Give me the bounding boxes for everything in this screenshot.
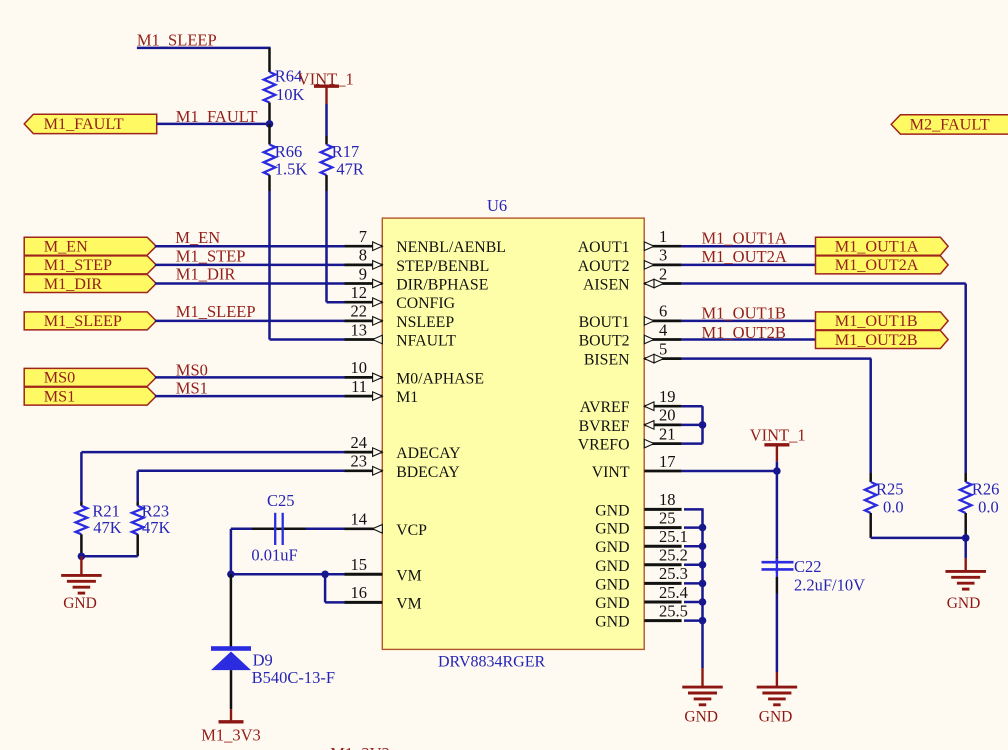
svg-text:20: 20 bbox=[659, 406, 676, 425]
svg-text:M1_SLEEP: M1_SLEEP bbox=[44, 312, 122, 330]
wire M1_SLEEP horizontal bbox=[137, 47, 271, 50]
svg-text:18: 18 bbox=[659, 490, 676, 509]
wire VM to pin 15 bbox=[325, 573, 344, 576]
wire C25 left to VM node bbox=[231, 528, 252, 531]
svg-text:MS1: MS1 bbox=[44, 387, 75, 405]
svg-text:R25: R25 bbox=[876, 480, 904, 499]
wire ADECAY down bbox=[80, 452, 83, 502]
node junction R21/R23 gnd bbox=[78, 553, 86, 561]
ground GND (right) bbox=[965, 558, 967, 571]
svg-text:6: 6 bbox=[659, 302, 667, 321]
wire BOUT1 to flag bbox=[682, 320, 816, 323]
ground GND (left) bbox=[80, 556, 82, 575]
svg-text:0.01uF: 0.01uF bbox=[251, 546, 297, 565]
wire AOUT2 to flag bbox=[682, 264, 816, 267]
svg-text:VCP: VCP bbox=[396, 522, 427, 539]
svg-text:BDECAY: BDECAY bbox=[396, 464, 460, 481]
wire VCP right of C25 bbox=[306, 528, 345, 531]
pin 4 (BOUT2) of U6 bbox=[644, 338, 681, 341]
svg-text:15: 15 bbox=[351, 555, 368, 574]
svg-text:25.5: 25.5 bbox=[659, 601, 688, 620]
wire R25 to R26 bottom bbox=[871, 537, 966, 540]
svg-text:M0/APHASE: M0/APHASE bbox=[396, 370, 484, 387]
wire gnd pin row 4 bbox=[684, 582, 704, 585]
R26 top lead bbox=[964, 473, 967, 482]
wire ADECAY pin 24 bbox=[81, 451, 344, 454]
pin 16 (VM) of U6 bbox=[345, 601, 383, 604]
svg-text:STEP/BENBL: STEP/BENBL bbox=[396, 258, 489, 275]
svg-text:0.0: 0.0 bbox=[978, 497, 999, 516]
svg-text:C22: C22 bbox=[794, 557, 822, 576]
R66 top lead bbox=[268, 124, 271, 145]
svg-text:M1_OUT1B: M1_OUT1B bbox=[835, 312, 918, 330]
svg-text:M1_3V3: M1_3V3 bbox=[201, 726, 261, 745]
wire VM to pin 16 bbox=[325, 601, 344, 604]
wire BISEN horizontal bbox=[682, 357, 872, 360]
svg-text:M1_DIR: M1_DIR bbox=[44, 275, 103, 293]
power symbol VINT_1 (top) bbox=[314, 84, 339, 87]
IC U6 body (DRV8834 driver) bbox=[382, 218, 644, 649]
wire VINT_1 to R17 bbox=[325, 104, 328, 136]
svg-text:M1_OUT1A: M1_OUT1A bbox=[702, 228, 787, 247]
svg-text:DRV8834RGER: DRV8834RGER bbox=[438, 654, 546, 671]
pin 25.4 (GND) of U6 bbox=[644, 601, 681, 604]
flag M1_SLEEP bbox=[24, 312, 156, 330]
node junction gnd bus 1 bbox=[699, 524, 707, 532]
node junction gnd bus 4 bbox=[699, 580, 707, 588]
node junction VINT/C22 bbox=[773, 467, 781, 475]
wire VM node horizontal bbox=[231, 573, 325, 576]
pin 20 (BVREF) of U6 bbox=[644, 424, 681, 427]
svg-text:M1_DIR: M1_DIR bbox=[176, 264, 236, 283]
svg-text:MS0: MS0 bbox=[44, 369, 75, 387]
pin 8 (STEP/BENBL) of U6 bbox=[345, 264, 383, 267]
C22 bottom lead bbox=[776, 577, 779, 594]
svg-text:16: 16 bbox=[351, 583, 368, 602]
wire BDECAY down bbox=[136, 471, 139, 502]
svg-text:47K: 47K bbox=[142, 518, 171, 537]
wire AVREF elbow bbox=[682, 405, 703, 408]
wire gnd pin row 6 bbox=[684, 619, 704, 622]
R25 top lead bbox=[869, 473, 872, 482]
node junction gnd bus 2 bbox=[699, 542, 707, 550]
resistor R64 bbox=[264, 72, 276, 103]
node junction gnd bus 5 bbox=[699, 598, 707, 606]
svg-text:NFAULT: NFAULT bbox=[396, 333, 456, 350]
svg-text:GND: GND bbox=[595, 558, 629, 575]
wire BVREF elbow bbox=[682, 424, 703, 427]
svg-text:25.4: 25.4 bbox=[659, 583, 688, 602]
wire M1_FAULT to junction bbox=[157, 123, 270, 126]
wire into node bbox=[268, 120, 271, 124]
svg-text:GND: GND bbox=[947, 595, 981, 612]
svg-text:R66: R66 bbox=[275, 142, 303, 161]
svg-text:GND: GND bbox=[595, 539, 629, 556]
svg-text:21: 21 bbox=[659, 424, 676, 443]
flag M_EN bbox=[24, 237, 156, 255]
pin 1 (AOUT1) of U6 bbox=[644, 245, 681, 248]
capacitor C22 bbox=[762, 561, 794, 564]
wire gnd pin row 0 bbox=[684, 508, 704, 511]
svg-text:17: 17 bbox=[659, 452, 676, 471]
pin 13 (NFAULT) of U6 bbox=[345, 338, 383, 341]
node junction BVREF tie bbox=[699, 421, 707, 429]
svg-text:BISEN: BISEN bbox=[584, 352, 630, 369]
svg-text:14: 14 bbox=[351, 510, 368, 529]
svg-text:BVREF: BVREF bbox=[579, 418, 630, 435]
wire M_EN to pin 7 bbox=[155, 245, 345, 248]
C25 right lead bbox=[283, 528, 306, 531]
svg-text:NSLEEP: NSLEEP bbox=[396, 314, 454, 331]
svg-text:GND: GND bbox=[595, 614, 629, 631]
C25 through lead bbox=[275, 528, 283, 531]
wire gnd bus vertical bbox=[701, 509, 704, 668]
svg-text:AOUT1: AOUT1 bbox=[578, 239, 630, 256]
wire gnd pin row 3 bbox=[684, 564, 704, 567]
wire MS0 to pin 10 bbox=[155, 376, 345, 379]
svg-text:C25: C25 bbox=[267, 491, 295, 510]
wire M1_DIR to pin 9 bbox=[155, 282, 345, 285]
R17 bottom lead bbox=[325, 175, 328, 191]
svg-text:M1_STEP: M1_STEP bbox=[176, 247, 246, 266]
svg-text:22: 22 bbox=[351, 302, 368, 321]
svg-text:47K: 47K bbox=[93, 518, 122, 537]
svg-text:BOUT1: BOUT1 bbox=[579, 314, 630, 331]
pin 19 (AVREF) of U6 bbox=[644, 405, 681, 408]
svg-text:10: 10 bbox=[351, 358, 368, 377]
wire BISEN down to R25 bbox=[869, 359, 872, 473]
resistor R23 bbox=[132, 506, 144, 535]
R21 bottom lead bbox=[80, 534, 83, 553]
svg-text:M1_OUT1B: M1_OUT1B bbox=[702, 304, 786, 323]
node junction R26/gnd bbox=[962, 534, 970, 542]
wire gnd pin row 5 bbox=[684, 601, 704, 604]
wire VREFO elbow bbox=[682, 442, 703, 445]
wire BDECAY pin 23 bbox=[138, 470, 345, 473]
diode D9 (B540C-13-F) bbox=[211, 646, 251, 651]
svg-text:M_EN: M_EN bbox=[175, 228, 220, 247]
wire elbow to pin 13 bbox=[270, 338, 345, 341]
resistor R26 bbox=[960, 482, 972, 513]
wire VINT_1 stem to node bbox=[776, 462, 779, 471]
flag M1_DIR bbox=[24, 275, 156, 293]
svg-text:CONFIG: CONFIG bbox=[396, 295, 455, 312]
svg-text:R17: R17 bbox=[332, 142, 360, 161]
svg-text:5: 5 bbox=[659, 339, 667, 358]
flag M2_FAULT (left-pointing) bbox=[891, 115, 1008, 134]
svg-text:M1_OUT2B: M1_OUT2B bbox=[702, 323, 786, 342]
pin 18 (GND) of U6 bbox=[644, 508, 681, 511]
pin 12 (CONFIG) of U6 bbox=[345, 301, 383, 304]
node junction M1_FAULT/R64/R66 bbox=[266, 120, 274, 128]
capacitor C25 bbox=[274, 513, 276, 545]
svg-text:B540C-13-F: B540C-13-F bbox=[252, 668, 335, 687]
svg-text:GND: GND bbox=[759, 709, 793, 726]
wire MS1 to pin 11 bbox=[155, 395, 345, 398]
R26 bottom lead bbox=[964, 513, 967, 536]
svg-text:M1: M1 bbox=[396, 389, 418, 406]
wire R21 to gnd node bbox=[80, 553, 83, 556]
svg-text:1.5K: 1.5K bbox=[275, 160, 308, 179]
svg-text:25.1: 25.1 bbox=[659, 527, 688, 546]
svg-text:R26: R26 bbox=[972, 480, 1000, 499]
svg-text:11: 11 bbox=[351, 377, 367, 396]
wire elbow to pin 12 bbox=[327, 301, 345, 304]
wire M1_STEP to pin 8 bbox=[155, 264, 345, 267]
svg-text:M1_FAULT: M1_FAULT bbox=[44, 115, 124, 133]
svg-text:25.3: 25.3 bbox=[659, 564, 688, 583]
wire M1_SLEEP to pin 22 bbox=[155, 320, 345, 323]
svg-text:13: 13 bbox=[351, 320, 368, 339]
svg-text:25: 25 bbox=[659, 508, 676, 527]
R23 top lead bbox=[136, 502, 139, 506]
pin 22 (NSLEEP) of U6 bbox=[345, 320, 383, 323]
svg-text:25.2: 25.2 bbox=[659, 546, 688, 565]
wire VINT to node bbox=[682, 470, 777, 473]
wire AISEN horizontal bbox=[682, 282, 966, 285]
svg-text:VREFO: VREFO bbox=[578, 437, 630, 454]
node junction gnd bus 6 bbox=[699, 617, 707, 625]
flag M1_OUT2B bbox=[816, 331, 949, 349]
pin 25 (GND) of U6 bbox=[644, 526, 681, 529]
flag M1_FAULT (left-pointing) bbox=[24, 114, 157, 133]
svg-text:2.2uF/10V: 2.2uF/10V bbox=[794, 576, 865, 595]
svg-text:M1_OUT2A: M1_OUT2A bbox=[702, 247, 787, 266]
svg-text:9: 9 bbox=[359, 264, 367, 283]
wire VINT node down to C22 bbox=[776, 471, 779, 557]
node junction C25/D9/VM bbox=[227, 571, 235, 579]
R23 bottom lead bbox=[136, 534, 139, 556]
wire VM down to pin 16 row bbox=[324, 574, 327, 602]
svg-text:GND: GND bbox=[63, 595, 97, 612]
svg-text:8: 8 bbox=[359, 246, 367, 265]
pin 5 (BISEN) of U6 bbox=[644, 357, 681, 360]
svg-text:M1_SLEEP: M1_SLEEP bbox=[176, 302, 256, 321]
wire AOUT1 to flag bbox=[682, 245, 816, 248]
svg-text:NENBL/AENBL: NENBL/AENBL bbox=[396, 239, 506, 256]
svg-text:M1_OUT1A: M1_OUT1A bbox=[835, 238, 919, 256]
svg-text:AISEN: AISEN bbox=[583, 277, 630, 294]
svg-text:47R: 47R bbox=[336, 160, 364, 179]
R25 bottom lead bbox=[869, 513, 872, 538]
svg-text:D9: D9 bbox=[253, 651, 273, 670]
svg-text:23: 23 bbox=[351, 452, 368, 471]
pin 25.2 (GND) of U6 bbox=[644, 563, 681, 566]
C22 bottom lead blue bbox=[776, 569, 778, 577]
flag M1_OUT2A bbox=[816, 256, 949, 274]
svg-text:VINT_1: VINT_1 bbox=[750, 426, 806, 445]
flag M1_STEP bbox=[24, 256, 156, 274]
svg-text:M1_OUT2B: M1_OUT2B bbox=[835, 331, 918, 349]
svg-text:0.0: 0.0 bbox=[883, 497, 904, 516]
node junction gnd bus 3 bbox=[699, 561, 707, 569]
ground GND (C22) bbox=[776, 672, 778, 687]
wire R26 node down bbox=[964, 538, 967, 558]
svg-text:24: 24 bbox=[351, 433, 368, 452]
wire gnd pin row 2 bbox=[684, 545, 704, 548]
svg-text:GND: GND bbox=[595, 595, 629, 612]
pin 10 (M0/APHASE) of U6 bbox=[345, 376, 383, 379]
pin 11 (M1) of U6 bbox=[345, 395, 383, 398]
svg-text:VINT: VINT bbox=[592, 464, 630, 481]
resistor R66 bbox=[264, 145, 276, 176]
svg-text:VM: VM bbox=[396, 595, 421, 612]
pin 17 (VINT) of U6 bbox=[644, 470, 681, 473]
wire R66 down to NFAULT elbow bbox=[268, 191, 271, 340]
wire AISEN down to R26 bbox=[964, 284, 967, 474]
wire BOUT2 to flag bbox=[682, 338, 816, 341]
flag M1_OUT1B bbox=[816, 312, 949, 330]
D9 bottom lead bbox=[230, 670, 233, 709]
pin 3 (AOUT2) of U6 bbox=[644, 264, 681, 267]
svg-text:M_EN: M_EN bbox=[44, 238, 88, 256]
svg-text:M1_OUT2A: M1_OUT2A bbox=[835, 256, 919, 274]
svg-text:2: 2 bbox=[659, 264, 667, 283]
flag MS1 bbox=[24, 387, 156, 405]
wire gnd pin row 1 bbox=[684, 526, 704, 529]
pin 23 (BDECAY) of U6 bbox=[345, 469, 383, 472]
pin 21 (VREFO) of U6 bbox=[644, 442, 681, 445]
R66 bottom lead bbox=[268, 175, 271, 191]
svg-text:1: 1 bbox=[659, 227, 667, 246]
svg-text:AVREF: AVREF bbox=[580, 399, 630, 416]
pin 25.3 (GND) of U6 bbox=[644, 582, 681, 585]
pin 6 (BOUT1) of U6 bbox=[644, 320, 681, 323]
R21 top lead bbox=[80, 502, 83, 506]
pin 2 (AISEN) of U6 bbox=[644, 282, 681, 285]
pin 7 (NENBL/AENBL) of U6 bbox=[345, 245, 383, 248]
resistor R21 bbox=[76, 506, 88, 535]
wire vref vertical tie bbox=[701, 406, 704, 443]
D9 top lead bbox=[230, 574, 233, 647]
svg-text:BOUT2: BOUT2 bbox=[579, 333, 630, 350]
pin 14 (VCP) of U6 bbox=[345, 527, 383, 530]
wire R17 down to CONFIG elbow bbox=[325, 191, 328, 302]
svg-text:GND: GND bbox=[595, 576, 629, 593]
pin 25.1 (GND) of U6 bbox=[644, 545, 681, 548]
R17 top lead bbox=[325, 136, 328, 145]
C22 top lead bbox=[776, 557, 779, 563]
wire C25 down to VM node bbox=[230, 529, 233, 575]
pin 25.5 (GND) of U6 bbox=[644, 619, 681, 622]
svg-text:19: 19 bbox=[659, 387, 676, 406]
svg-text:VM: VM bbox=[396, 567, 421, 584]
wire / R64 top lead vertical bbox=[268, 48, 271, 72]
svg-text:ADECAY: ADECAY bbox=[396, 445, 460, 462]
flag M1_OUT1A bbox=[816, 237, 949, 255]
pin 24 (ADECAY) of U6 bbox=[345, 451, 383, 454]
wire C22 to gnd bbox=[776, 594, 779, 673]
pin 9 (DIR/BPHASE) of U6 bbox=[345, 282, 383, 285]
node junction VM pins bbox=[321, 571, 329, 579]
R64 bottom lead bbox=[268, 103, 271, 121]
svg-text:AOUT2: AOUT2 bbox=[578, 258, 630, 275]
svg-text:GND: GND bbox=[684, 709, 718, 726]
wire R21-R23 gnd bus bbox=[81, 555, 137, 558]
svg-text:4: 4 bbox=[659, 320, 667, 339]
resistor R25 bbox=[865, 482, 877, 513]
svg-text:DIR/BPHASE: DIR/BPHASE bbox=[396, 277, 488, 294]
ground GND (bus) bbox=[701, 668, 703, 687]
flag MS0 bbox=[24, 368, 156, 386]
power symbol VINT_1 (right) bbox=[764, 443, 789, 446]
svg-text:M1_3V3: M1_3V3 bbox=[330, 744, 390, 750]
svg-text:VINT_1: VINT_1 bbox=[298, 69, 354, 88]
pin 15 (VM) of U6 bbox=[345, 573, 383, 576]
svg-text:GND: GND bbox=[595, 521, 629, 538]
svg-text:GND: GND bbox=[595, 502, 629, 519]
resistor R17 bbox=[321, 145, 333, 176]
svg-text:3: 3 bbox=[659, 246, 667, 265]
svg-text:12: 12 bbox=[351, 283, 368, 302]
svg-text:7: 7 bbox=[359, 227, 367, 246]
C25 left lead bbox=[252, 528, 275, 531]
svg-text:M2_FAULT: M2_FAULT bbox=[910, 116, 990, 134]
power symbol M1_3V3 bbox=[230, 709, 232, 722]
svg-text:M1_STEP: M1_STEP bbox=[44, 256, 112, 274]
svg-text:U6: U6 bbox=[487, 196, 507, 215]
